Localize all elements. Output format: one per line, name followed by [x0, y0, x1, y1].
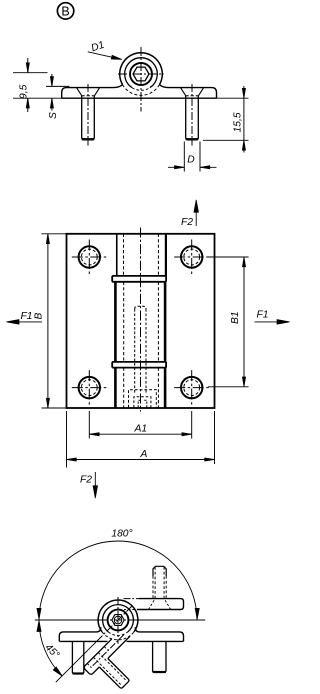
force arrow F2 bottom [94, 472, 96, 488]
svg-text:180°: 180° [111, 529, 132, 540]
hex socket [133, 67, 149, 81]
center strip: middle section left edge [114, 282, 117, 362]
dim 9,5 arrowheads [26, 63, 29, 108]
pivot horizontal centerline across knuckle [100, 619, 136, 621]
svg-text:F1: F1 [257, 310, 269, 321]
moving leaf stud up outline hidden [153, 576, 166, 599]
arc 180deg right arrowhead [195, 608, 199, 619]
leaf at 45deg: centerline [92, 635, 125, 668]
leaf at 45deg: outer face upper segment [108, 636, 130, 658]
pivot horizontal reference line left [35, 619, 100, 621]
strip centerline [140, 228, 142, 412]
center strip: upper cross bar [112, 276, 166, 282]
leader D1 [88, 52, 119, 59]
hole top-left: outer [79, 246, 100, 267]
arc 180deg [39, 541, 197, 620]
knuckle outer circle solid upper arc [120, 53, 163, 85]
moving leaf at 180deg: top edge hidden part [124, 598, 140, 600]
dim S arrowheads [50, 77, 53, 108]
svg-text:A: A [140, 449, 148, 460]
screw right: stud bottom thick [186, 138, 199, 140]
svg-text:S: S [48, 112, 59, 119]
force arrow F1 right head [277, 320, 290, 325]
screw right: head bottom hidden [186, 95, 199, 97]
hole bottom-left: outer [79, 377, 100, 398]
dim B line [47, 234, 49, 408]
arc 45deg bottom arrowhead [53, 667, 62, 676]
screw left: centerline [87, 84, 89, 146]
hidden clamp pocket outer [129, 390, 157, 408]
center strip: lower section hidden lines [124, 368, 159, 408]
hidden clamp detail [138, 400, 147, 407]
dim B1 extension lines [208, 257, 249, 387]
svg-text:D: D [187, 155, 195, 166]
screw right: countersunk head [181, 88, 204, 96]
svg-text:B: B [61, 4, 69, 18]
center strip: upper section left edge [116, 234, 118, 276]
dim 15,5 extension top (plate bottom extended right) [217, 97, 249, 99]
fixed plate bottom edge [59, 640, 183, 642]
dim 9,5 extension bottom (plate bottom extended left) [13, 97, 62, 99]
svg-text:F2: F2 [80, 475, 92, 486]
hidden slot in strip [135, 306, 146, 394]
dim B arrowheads [46, 234, 49, 408]
pivot horizontal reference line right [136, 619, 205, 621]
dim 15,5 extension bottom (stud bottom extended right) [203, 139, 249, 141]
knuckle circle 3 (screw head) [130, 63, 152, 85]
svg-text:A1: A1 [134, 424, 148, 435]
screw left: stud bottom thick [82, 138, 95, 140]
knuckle outer circle hidden lower arc dashed [123, 85, 160, 96]
hole top-right: thread dashed [184, 249, 200, 265]
hole bottom-left: thread dashed [81, 380, 97, 396]
knuckle circle 2 solid arc [125, 58, 158, 88]
fixed plate stud right [153, 641, 166, 672]
force arrow F2 bottom head [93, 486, 98, 499]
center strip: upper section hidden lines [124, 234, 159, 276]
dim A extension lines [67, 411, 215, 468]
knuckle circle 2 solid arc [103, 605, 134, 632]
leaf at 45deg: countersunk head rim hidden [87, 647, 108, 668]
hole top-left: crosshair [72, 240, 107, 275]
dim B1 arrowheads [242, 257, 245, 387]
svg-text:B1: B1 [230, 311, 241, 324]
screw left: head bottom hidden [82, 95, 95, 97]
moving leaf at 180deg: outline [137, 599, 184, 610]
dim A1 line [89, 433, 191, 435]
center strip: upper section right edge [165, 234, 167, 276]
hole bottom-right: outer [181, 377, 202, 398]
center strip: lower section right edge [164, 368, 167, 408]
hole bottom-left: crosshair [72, 370, 107, 405]
plate outline with rounded ends and fillets into knuckle [62, 85, 217, 99]
knuckle outer circle hidden arc [102, 632, 134, 640]
force arrow F1 left [17, 321, 42, 323]
center strip: lower cross bar [112, 362, 166, 368]
dim D extension lines [184, 142, 200, 172]
center strip: middle section right edge [164, 282, 167, 362]
dim 15,5 line with outside arrows [243, 86, 245, 153]
moving leaf stud up outline top solid [153, 566, 166, 576]
knuckle hex socket [114, 616, 122, 624]
force arrow F1 right [255, 321, 279, 323]
svg-text:15,5: 15,5 [232, 112, 243, 132]
screw left: countersunk head [77, 88, 100, 96]
leader D1 arrowhead [111, 55, 122, 59]
knuckle outer circle solid arc [98, 600, 138, 632]
leaf at 45deg: stud outline [99, 659, 129, 689]
fixed plate outline [59, 627, 183, 641]
svg-text:F2: F2 [181, 217, 193, 228]
hex socket outline [112, 615, 124, 626]
dim A line [67, 459, 215, 461]
leaf at 45deg: stud thread hidden [93, 653, 126, 686]
center strip: middle section hidden lines [124, 282, 159, 362]
dim 9,5 extension top [13, 72, 48, 74]
hole top-right: outer [181, 246, 202, 267]
knuckle circle 2 hidden arc [108, 632, 128, 636]
view label circle B [57, 3, 73, 19]
hole bottom-right: crosshair [174, 370, 209, 405]
plate bottom edge [62, 97, 217, 99]
dim 15,5 arrowheads [242, 88, 245, 150]
pivot vertical centerline [117, 597, 119, 644]
center strip: lower section left edge [114, 368, 117, 408]
fixed plate stud left [72, 641, 83, 674]
svg-text:9,5: 9,5 [18, 84, 29, 99]
fixed plate stud right bottom thick [153, 671, 166, 673]
screw left: stud [82, 96, 95, 140]
force arrow F1 left head [7, 320, 20, 325]
dim S extension top [46, 85, 70, 87]
dim A arrowheads [67, 458, 215, 461]
hole bottom-right: thread dashed [184, 380, 200, 396]
fixed plate stud left bottom thick [72, 672, 83, 674]
dim B extension lines [42, 234, 67, 408]
force arrow F2 top head [194, 200, 199, 213]
hidden clamp pocket inner [134, 397, 151, 408]
screw right: centerline [191, 84, 193, 146]
moving leaf at 180deg: bottom edge hidden part [124, 609, 135, 611]
arc 45deg [39, 620, 62, 676]
dim A1 arrowheads [89, 433, 191, 436]
moving leaf stud thread hidden [155, 567, 164, 599]
dim A1 extension lines [89, 411, 191, 439]
dim D arrowheads [175, 166, 210, 169]
knuckle circle 2 hidden arc [132, 88, 150, 91]
plate outline [67, 234, 215, 408]
pivot diagonal centerline 45deg [97, 606, 132, 641]
dim S line with outside arrows [51, 74, 53, 111]
centerline vertical of knuckle [140, 47, 142, 112]
hole top-right: crosshair [174, 240, 209, 275]
arc 45deg top arrowhead [37, 621, 41, 632]
screw right: stud [186, 96, 199, 140]
hole top-left: thread dashed [81, 249, 97, 265]
dim B1 line [243, 257, 245, 387]
arc 180deg left arrowhead [37, 608, 41, 619]
knuckle circle 3 (screw head) [108, 610, 129, 631]
force arrow F2 top [195, 210, 197, 226]
moving leaf countersunk head hidden [149, 599, 171, 610]
dim D line with outside arrows [168, 166, 217, 168]
dim 9,5 line with outside arrows [27, 58, 29, 112]
svg-text:B: B [34, 313, 45, 320]
centerline horizontal of knuckle [118, 73, 164, 75]
45deg extension ray [56, 641, 97, 682]
svg-text:F1: F1 [21, 311, 33, 322]
leaf at 45deg: inner face and rounded end [84, 639, 112, 674]
